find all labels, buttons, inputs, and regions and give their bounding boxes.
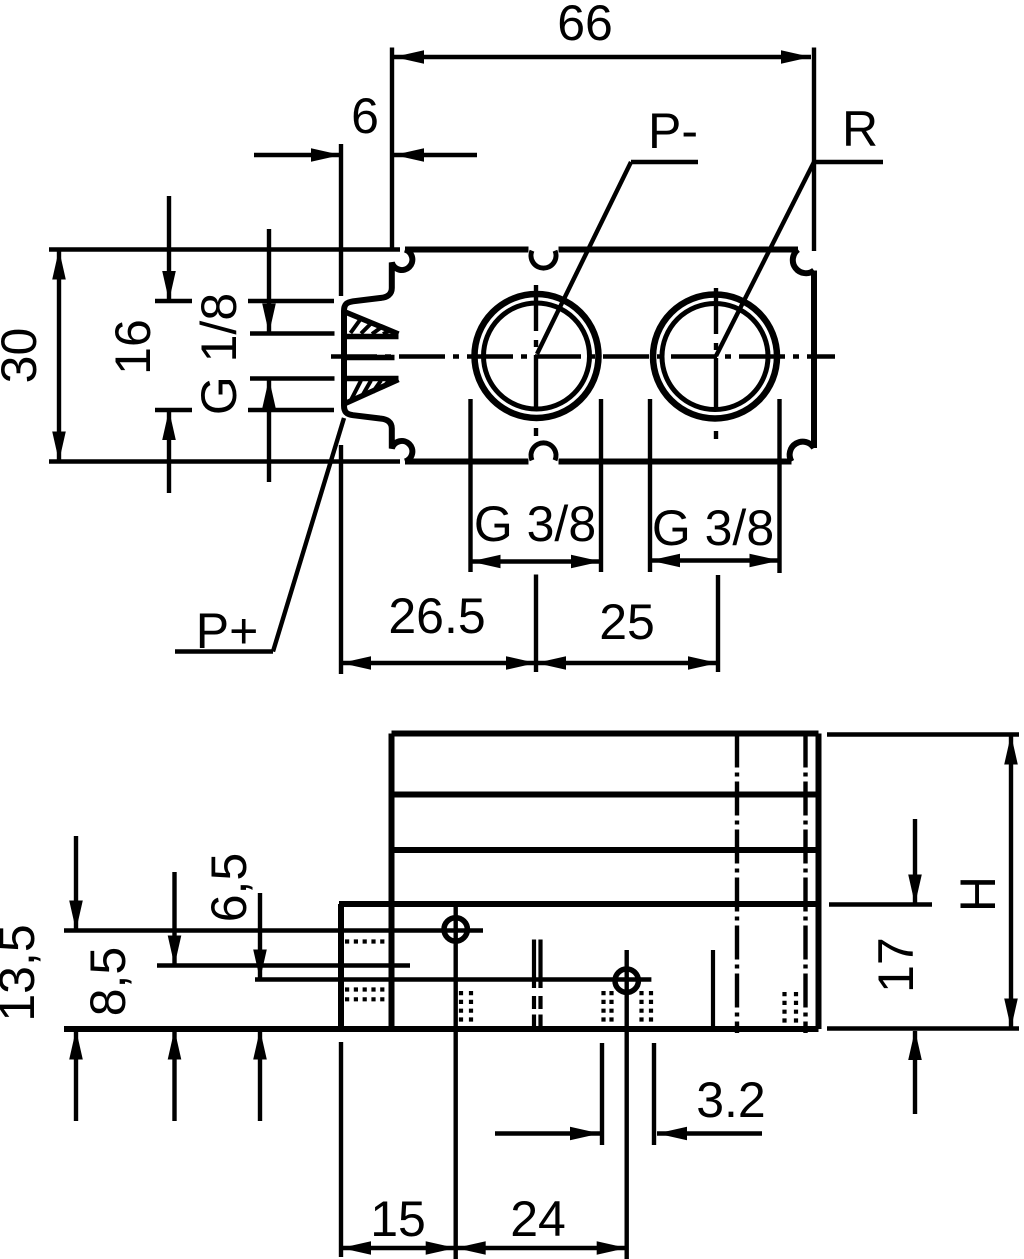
svg-text:16: 16: [105, 319, 161, 375]
svg-text:3.2: 3.2: [696, 1072, 766, 1128]
svg-text:8,5: 8,5: [80, 947, 136, 1017]
svg-text:17: 17: [868, 937, 924, 993]
svg-text:13,5: 13,5: [0, 924, 45, 1021]
svg-text:66: 66: [557, 0, 613, 51]
svg-text:24: 24: [510, 1191, 566, 1247]
svg-text:P+: P+: [196, 603, 259, 659]
svg-text:R: R: [842, 101, 878, 157]
svg-text:25: 25: [599, 594, 655, 650]
svg-text:15: 15: [370, 1191, 426, 1247]
svg-text:26.5: 26.5: [388, 588, 485, 644]
svg-text:P-: P-: [648, 103, 698, 159]
svg-text:30: 30: [0, 328, 47, 384]
svg-text:G 3/8: G 3/8: [474, 496, 596, 552]
svg-text:6,5: 6,5: [201, 853, 257, 923]
svg-text:G 1/8: G 1/8: [191, 293, 247, 415]
svg-text:G 3/8: G 3/8: [652, 500, 774, 556]
svg-text:6: 6: [351, 88, 379, 144]
svg-text:H: H: [950, 876, 1006, 912]
